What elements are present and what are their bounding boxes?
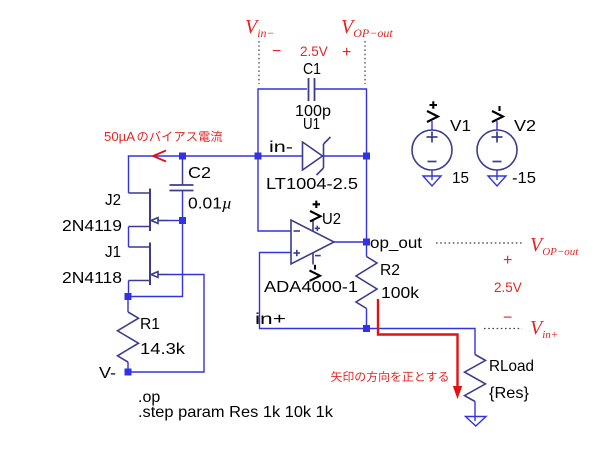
svg-text:U2: U2	[322, 211, 341, 228]
svg-text:V-: V-	[99, 365, 116, 382]
op-amp U2 ADA4000-1	[291, 220, 334, 265]
ground V1	[423, 176, 441, 186]
node junction op_out	[363, 239, 370, 246]
svg-text:-15: -15	[512, 170, 536, 187]
U2 V- flag	[310, 265, 321, 281]
svg-text:2N4119: 2N4119	[62, 218, 122, 235]
dotted leader in+	[484, 328, 522, 330]
V1 polarity flag	[427, 101, 438, 122]
wire right rail U1 to op_out	[366, 156, 368, 243]
node junction in+	[363, 325, 370, 332]
svg-text:{Res}: {Res}	[489, 385, 530, 402]
wire in+ node to RLoad	[367, 329, 476, 355]
U2 V+ flag	[310, 201, 321, 222]
svg-text:50µA: 50µA	[104, 129, 135, 144]
svg-text:RLoad: RLoad	[489, 358, 534, 375]
svg-text:in-: in-	[269, 139, 293, 156]
voltage source V2	[477, 130, 517, 170]
resistor R1	[127, 297, 129, 313]
svg-text:V2: V2	[514, 118, 536, 135]
V2 polarity flag	[492, 106, 503, 122]
node junction C2 top	[179, 153, 186, 160]
node junction J1 source R1	[125, 293, 132, 300]
svg-text:+: +	[503, 252, 512, 269]
svg-text:100k: 100k	[381, 285, 420, 302]
red current direction wire	[378, 299, 458, 387]
wire main in- rail	[128, 155, 302, 157]
svg-text:R2: R2	[380, 262, 400, 279]
ground RLoad	[466, 417, 487, 427]
dotted leader op_out	[436, 242, 522, 244]
dotted leader left	[258, 41, 260, 84]
svg-text:ADA4000-1: ADA4000-1	[264, 279, 358, 296]
dotted leader right	[364, 41, 366, 84]
transistor J1 2N4118	[129, 243, 169, 286]
svg-text:V1: V1	[450, 118, 471, 135]
svg-text:R1: R1	[140, 316, 160, 333]
svg-text:VOP−out: VOP−out	[341, 16, 393, 40]
op-amp U1 LT1004-2.5 zener reference	[303, 137, 331, 175]
wire J2 gate to C2 node	[168, 220, 183, 222]
svg-text:2.5V: 2.5V	[494, 280, 522, 295]
ground V2	[488, 176, 506, 186]
svg-text:Vin−: Vin−	[245, 16, 275, 40]
wire U2 output	[334, 241, 367, 243]
svg-text:J1: J1	[105, 244, 121, 261]
resistor R2	[366, 242, 368, 257]
svg-text:U1: U1	[303, 116, 320, 133]
voltage source V1	[412, 130, 452, 170]
wire top loop	[258, 89, 367, 156]
resistor RLoad	[465, 355, 486, 402]
node junction J2 gate	[179, 217, 186, 224]
svg-text:−: −	[272, 43, 281, 60]
red bias current arrow	[153, 151, 166, 162]
wire C2 bottom branch	[128, 191, 183, 297]
svg-text:C1: C1	[303, 61, 321, 78]
node junction V-	[125, 369, 132, 376]
svg-text:LT1004-2.5: LT1004-2.5	[266, 176, 358, 193]
svg-text:J2: J2	[105, 192, 121, 209]
svg-text:0.01µ: 0.01µ	[188, 196, 232, 213]
svg-text:14.3k: 14.3k	[140, 341, 186, 358]
svg-text:C2: C2	[188, 165, 211, 182]
label arrow direction positive	[331, 371, 342, 382]
wire in- to U2 inverting input	[258, 156, 291, 231]
svg-text:15: 15	[452, 170, 469, 187]
capacitor C1	[309, 78, 315, 101]
wire J1 source	[128, 281, 130, 297]
wire J2 drain riser	[128, 156, 130, 193]
wire C2 top	[182, 156, 184, 185]
wire U2 noninverting input to in+ rail	[260, 253, 367, 329]
transistor J2 2N4119	[129, 189, 169, 232]
svg-text:in+: in+	[255, 311, 286, 328]
wire J1 gate to V- rail	[128, 275, 204, 373]
wire J2 source to J1 drain	[128, 227, 130, 248]
svg-text:+: +	[342, 44, 351, 61]
svg-text:2.5V: 2.5V	[300, 44, 328, 59]
wire U1 cathode to right rail	[324, 155, 367, 157]
node junction in-	[255, 153, 262, 160]
svg-text:Vin+: Vin+	[530, 317, 558, 341]
svg-text:−: −	[503, 310, 512, 327]
svg-text:op_out: op_out	[370, 235, 423, 252]
node junction U1 right	[363, 153, 370, 160]
svg-text:VOP−out: VOP−out	[530, 234, 579, 258]
svg-text:2N4118: 2N4118	[62, 270, 122, 287]
svg-text:.step param Res 1k 10k 1k: .step param Res 1k 10k 1k	[138, 404, 334, 421]
capacitor C2	[170, 185, 194, 191]
